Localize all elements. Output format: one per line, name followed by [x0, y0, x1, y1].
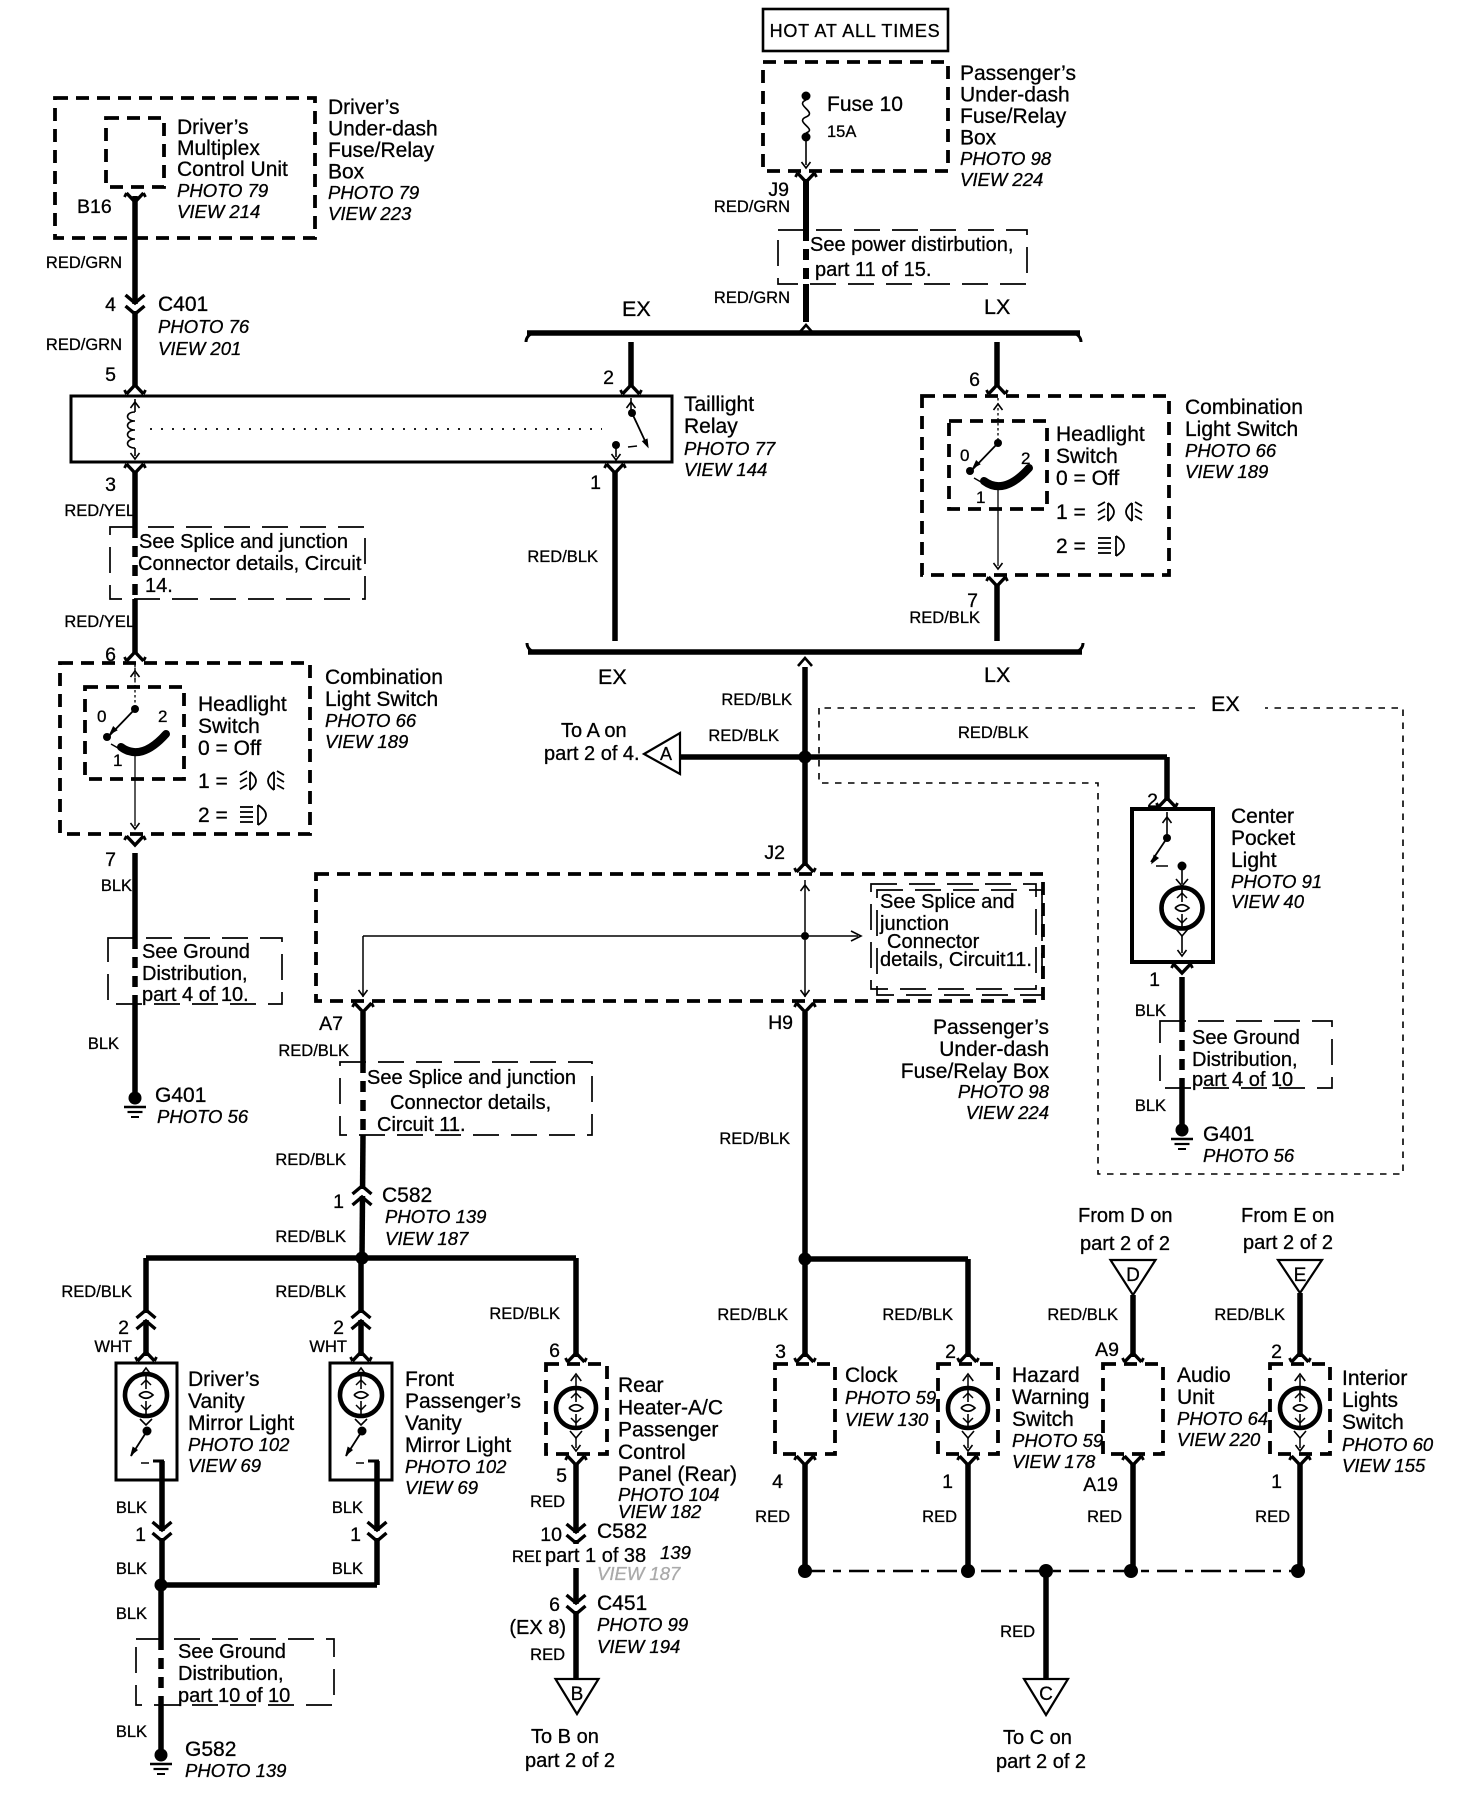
svg-text:Connector details, Circuit: Connector details, Circuit [138, 553, 362, 575]
svg-text:VIEW 178: VIEW 178 [1012, 1451, 1096, 1472]
svg-text:RED/BLK: RED/BLK [278, 1042, 349, 1060]
svg-text:Fuse/Relay: Fuse/Relay [960, 105, 1067, 128]
svg-text:1: 1 [590, 472, 601, 494]
svg-text:VIEW 223: VIEW 223 [328, 203, 412, 224]
svg-text:1: 1 [135, 1524, 146, 1546]
svg-text:RED/BLK: RED/BLK [1214, 1306, 1285, 1324]
svg-text:RED: RED [1087, 1508, 1122, 1526]
svg-text:Mirror Light: Mirror Light [188, 1412, 294, 1435]
svg-text:C582: C582 [597, 1520, 647, 1543]
svg-text:WHT: WHT [94, 1338, 132, 1356]
svg-text:RED/BLK: RED/BLK [489, 1305, 560, 1323]
svg-text:Lights: Lights [1342, 1389, 1398, 1412]
svg-text:RED: RED [530, 1646, 565, 1664]
svg-text:Switch: Switch [1342, 1411, 1404, 1434]
svg-text:Rear: Rear [618, 1374, 664, 1397]
svg-text:VIEW 187: VIEW 187 [385, 1228, 469, 1249]
svg-text:BLK: BLK [332, 1499, 363, 1517]
svg-text:Heater-A/C: Heater-A/C [618, 1396, 723, 1419]
svg-text:Under-dash: Under-dash [328, 118, 438, 141]
svg-text:PHOTO 60: PHOTO 60 [1342, 1434, 1434, 1455]
svg-text:VIEW 189: VIEW 189 [325, 731, 408, 752]
svg-text:Panel (Rear): Panel (Rear) [618, 1463, 737, 1486]
svg-text:(EX 8): (EX 8) [509, 1617, 566, 1639]
svg-text:Light: Light [1231, 849, 1277, 872]
svg-text:BLK: BLK [332, 1560, 363, 1578]
svg-text:RED/GRN: RED/GRN [46, 254, 122, 272]
svg-text:RED: RED [530, 1493, 565, 1511]
svg-text:G401: G401 [155, 1084, 206, 1107]
svg-text:2 =: 2 = [198, 804, 228, 827]
svg-text:See Splice and junction: See Splice and junction [367, 1067, 576, 1089]
svg-text:RED/GRN: RED/GRN [714, 198, 790, 216]
svg-text:15A: 15A [827, 123, 856, 141]
svg-text:Audio: Audio [1177, 1364, 1231, 1387]
svg-text:To A on: To A on [561, 720, 627, 742]
svg-text:E: E [1294, 1265, 1307, 1286]
svg-text:RED/GRN: RED/GRN [714, 289, 790, 307]
svg-text:EX: EX [1211, 692, 1240, 716]
svg-text:PHOTO 91: PHOTO 91 [1231, 871, 1322, 892]
svg-text:2: 2 [1021, 449, 1030, 468]
svg-text:RED/YEL: RED/YEL [64, 502, 135, 520]
svg-text:1: 1 [333, 1191, 344, 1213]
svg-text:B16: B16 [77, 196, 112, 218]
svg-text:See power distirbution,: See power distirbution, [810, 234, 1013, 256]
svg-text:VIEW 130: VIEW 130 [845, 1409, 929, 1430]
svg-text:2: 2 [945, 1341, 956, 1363]
svg-text:VIEW 220: VIEW 220 [1177, 1429, 1261, 1450]
svg-text:VIEW 189: VIEW 189 [1185, 461, 1268, 482]
svg-text:Fuse/Relay Box: Fuse/Relay Box [901, 1060, 1050, 1083]
svg-text:PHOTO 66: PHOTO 66 [325, 710, 417, 731]
svg-text:PHOTO 77: PHOTO 77 [684, 438, 776, 459]
svg-text:part 10 of 10: part 10 of 10 [178, 1685, 290, 1707]
svg-text:Vanity: Vanity [188, 1390, 245, 1413]
svg-text:part 4 of 10: part 4 of 10 [1192, 1069, 1293, 1091]
svg-text:part 11 of 15.: part 11 of 15. [815, 259, 931, 281]
svg-text:Light Switch: Light Switch [325, 688, 438, 711]
svg-text:Relay: Relay [684, 415, 738, 438]
svg-text:2 =: 2 = [1056, 535, 1086, 558]
svg-text:Multiplex: Multiplex [177, 137, 260, 160]
svg-text:RED/BLK: RED/BLK [275, 1283, 346, 1301]
svg-text:Under-dash: Under-dash [939, 1038, 1049, 1061]
svg-text:PHOTO 59: PHOTO 59 [1012, 1430, 1103, 1451]
svg-text:5: 5 [556, 1465, 567, 1487]
svg-text:1: 1 [976, 488, 985, 507]
svg-text:PHOTO 79: PHOTO 79 [177, 180, 268, 201]
svg-text:PHOTO 98: PHOTO 98 [960, 148, 1052, 169]
svg-text:From D on: From D on [1078, 1205, 1172, 1227]
svg-text:BLK: BLK [101, 877, 132, 895]
svg-text:10: 10 [540, 1524, 562, 1546]
svg-text:6: 6 [105, 644, 116, 666]
svg-text:C401: C401 [158, 293, 208, 316]
svg-text:Distribution,: Distribution, [178, 1663, 284, 1685]
svg-text:C582: C582 [382, 1184, 432, 1207]
svg-text:4: 4 [105, 294, 116, 316]
svg-text:0 = Off: 0 = Off [198, 737, 261, 760]
svg-text:A19: A19 [1083, 1474, 1118, 1496]
svg-text:VIEW 224: VIEW 224 [966, 1102, 1049, 1123]
svg-text:See Ground: See Ground [178, 1641, 286, 1663]
svg-text:7: 7 [105, 849, 116, 871]
svg-text:LX: LX [984, 663, 1010, 687]
svg-text:Driver’s: Driver’s [328, 96, 400, 119]
svg-text:3: 3 [105, 474, 116, 496]
svg-text:PHOTO 102: PHOTO 102 [188, 1434, 290, 1455]
svg-text:Control Unit: Control Unit [177, 158, 288, 181]
svg-text:PHOTO 56: PHOTO 56 [1203, 1145, 1295, 1166]
svg-text:Passenger: Passenger [618, 1419, 718, 1442]
svg-text:VIEW 182: VIEW 182 [618, 1501, 702, 1522]
svg-text:J2: J2 [764, 842, 785, 864]
svg-text:Circuit 11.: Circuit 11. [377, 1114, 466, 1136]
svg-text:From E on: From E on [1241, 1205, 1334, 1227]
svg-text:Headlight: Headlight [198, 693, 287, 716]
svg-text:Passenger’s: Passenger’s [960, 62, 1076, 85]
svg-text:RED/BLK: RED/BLK [719, 1130, 790, 1148]
svg-text:Pocket: Pocket [1231, 827, 1295, 850]
svg-text:part 4 of 10.: part 4 of 10. [142, 984, 249, 1006]
svg-text:1 =: 1 = [198, 770, 228, 793]
svg-text:RED/BLK: RED/BLK [61, 1283, 132, 1301]
svg-text:To C on: To C on [1003, 1727, 1072, 1749]
svg-text:Clock: Clock [845, 1364, 898, 1387]
svg-text:PHOTO 56: PHOTO 56 [157, 1106, 249, 1127]
svg-text:G401: G401 [1203, 1123, 1254, 1146]
svg-text:RED/BLK: RED/BLK [275, 1151, 346, 1169]
svg-text:BLK: BLK [1135, 1002, 1166, 1020]
svg-text:RED/BLK: RED/BLK [1047, 1306, 1118, 1324]
svg-text:A: A [660, 744, 672, 764]
svg-text:Mirror Light: Mirror Light [405, 1434, 511, 1457]
svg-text:VIEW 214: VIEW 214 [177, 201, 260, 222]
svg-text:EX: EX [622, 297, 651, 321]
svg-text:part 2 of 2: part 2 of 2 [525, 1750, 615, 1772]
svg-text:4: 4 [772, 1471, 783, 1493]
svg-text:Switch: Switch [1056, 445, 1118, 468]
svg-text:2: 2 [1271, 1341, 1282, 1363]
svg-text:BLK: BLK [116, 1605, 147, 1623]
svg-text:PHOTO 59: PHOTO 59 [845, 1387, 936, 1408]
svg-text:2: 2 [333, 1317, 344, 1339]
svg-text:RED: RED [1000, 1623, 1035, 1641]
svg-text:VIEW 144: VIEW 144 [684, 459, 767, 480]
svg-text:Light Switch: Light Switch [1185, 418, 1298, 441]
svg-text:1 =: 1 = [1056, 501, 1086, 524]
svg-text:G582: G582 [185, 1738, 236, 1761]
svg-text:VIEW 194: VIEW 194 [597, 1636, 680, 1657]
svg-text:part 2 of 2: part 2 of 2 [1243, 1232, 1333, 1254]
svg-text:0: 0 [960, 446, 969, 465]
svg-text:A9: A9 [1095, 1339, 1119, 1361]
svg-text:BLK: BLK [88, 1035, 119, 1053]
svg-text:RED/BLK: RED/BLK [958, 724, 1029, 742]
svg-text:VIEW 40: VIEW 40 [1231, 891, 1305, 912]
svg-text:VIEW 69: VIEW 69 [188, 1455, 261, 1476]
svg-text:RED/BLK: RED/BLK [708, 727, 779, 745]
svg-text:RED/GRN: RED/GRN [46, 336, 122, 354]
svg-text:5: 5 [105, 364, 116, 386]
svg-text:2: 2 [1147, 790, 1158, 812]
svg-text:1: 1 [1149, 969, 1160, 991]
svg-text:Unit: Unit [1177, 1386, 1215, 1409]
svg-text:Center: Center [1231, 805, 1294, 828]
svg-text:VIEW 201: VIEW 201 [158, 338, 241, 359]
svg-text:Box: Box [960, 127, 997, 150]
svg-text:part 2 of 2: part 2 of 2 [996, 1751, 1086, 1773]
svg-text:Interior: Interior [1342, 1367, 1407, 1390]
svg-text:7: 7 [967, 590, 978, 612]
svg-text:Passenger’s: Passenger’s [933, 1016, 1049, 1039]
svg-text:part 2 of 2: part 2 of 2 [1080, 1233, 1170, 1255]
svg-text:HOT AT ALL TIMES: HOT AT ALL TIMES [770, 21, 941, 41]
svg-text:See Ground: See Ground [1192, 1027, 1300, 1049]
svg-text:part 2 of 4.: part 2 of 4. [544, 743, 640, 765]
svg-text:RED/BLK: RED/BLK [527, 548, 598, 566]
svg-text:BLK: BLK [116, 1560, 147, 1578]
svg-text:B: B [571, 1684, 584, 1705]
svg-text:Warning: Warning [1012, 1386, 1089, 1409]
svg-text:LX: LX [984, 295, 1010, 319]
svg-text:PHOTO 139: PHOTO 139 [385, 1206, 486, 1227]
svg-text:A7: A7 [319, 1013, 343, 1035]
svg-text:Driver’s: Driver’s [188, 1368, 260, 1391]
svg-text:Front: Front [405, 1368, 454, 1391]
svg-text:2: 2 [158, 707, 167, 726]
svg-text:See Splice and: See Splice and [880, 891, 1015, 913]
svg-text:0: 0 [97, 707, 106, 726]
svg-text:BLK: BLK [116, 1499, 147, 1517]
svg-text:details, Circuit11.: details, Circuit11. [880, 949, 1032, 971]
svg-text:PHOTO 98: PHOTO 98 [958, 1081, 1050, 1102]
svg-text:PHOTO 79: PHOTO 79 [328, 182, 419, 203]
svg-text:6: 6 [549, 1340, 560, 1362]
svg-text:1: 1 [1271, 1471, 1282, 1493]
svg-text:RED: RED [1255, 1508, 1290, 1526]
svg-text:1: 1 [350, 1524, 361, 1546]
svg-text:Box: Box [328, 161, 365, 184]
svg-text:D: D [1126, 1265, 1140, 1286]
svg-text:1: 1 [942, 1471, 953, 1493]
svg-text:14.: 14. [145, 575, 173, 597]
svg-text:RED/BLK: RED/BLK [717, 1306, 788, 1324]
svg-text:BLK: BLK [1135, 1097, 1166, 1115]
svg-text:Distribution,: Distribution, [142, 963, 248, 985]
svg-text:VIEW 187: VIEW 187 [597, 1563, 681, 1584]
svg-text:RED: RED [922, 1508, 957, 1526]
svg-text:RED: RED [755, 1508, 790, 1526]
svg-text:Control: Control [618, 1441, 686, 1464]
svg-text:6: 6 [969, 369, 980, 391]
svg-text:PHOTO 102: PHOTO 102 [405, 1456, 507, 1477]
svg-text:See Ground: See Ground [142, 941, 250, 963]
svg-text:Hazard: Hazard [1012, 1364, 1080, 1387]
svg-text:EX: EX [598, 665, 627, 689]
svg-text:VIEW 69: VIEW 69 [405, 1477, 478, 1498]
svg-text:RED/BLK: RED/BLK [721, 691, 792, 709]
svg-text:Passenger’s: Passenger’s [405, 1390, 521, 1413]
svg-text:PHOTO 76: PHOTO 76 [158, 316, 250, 337]
svg-text:To B on: To B on [531, 1726, 599, 1748]
svg-text:Combination: Combination [325, 666, 443, 689]
svg-text:See Splice and junction: See Splice and junction [139, 531, 348, 553]
svg-text:Driver’s: Driver’s [177, 116, 249, 139]
svg-text:Headlight: Headlight [1056, 423, 1145, 446]
svg-text:Taillight: Taillight [684, 393, 754, 416]
svg-text:PHOTO 139: PHOTO 139 [185, 1760, 286, 1781]
svg-text:RED/BLK: RED/BLK [882, 1306, 953, 1324]
svg-text:Connector details,: Connector details, [390, 1092, 551, 1114]
svg-text:RED/BLK: RED/BLK [275, 1228, 346, 1246]
svg-text:Vanity: Vanity [405, 1412, 462, 1435]
svg-text:PHOTO 64: PHOTO 64 [1177, 1408, 1268, 1429]
svg-text:Switch: Switch [1012, 1408, 1074, 1431]
svg-text:VIEW 224: VIEW 224 [960, 169, 1043, 190]
svg-text:VIEW 155: VIEW 155 [1342, 1455, 1426, 1476]
svg-text:C: C [1039, 1684, 1053, 1705]
svg-text:3: 3 [775, 1341, 786, 1363]
svg-text:H9: H9 [768, 1012, 793, 1034]
svg-text:Fuse/Relay: Fuse/Relay [328, 139, 435, 162]
svg-text:PHOTO 66: PHOTO 66 [1185, 440, 1277, 461]
svg-text:Switch: Switch [198, 715, 260, 738]
svg-text:139: 139 [660, 1542, 691, 1563]
svg-text:Fuse 10: Fuse 10 [827, 93, 903, 116]
svg-text:C451: C451 [597, 1592, 647, 1615]
svg-text:2: 2 [603, 367, 614, 389]
svg-text:BLK: BLK [116, 1723, 147, 1741]
svg-text:0 = Off: 0 = Off [1056, 467, 1119, 490]
svg-text:6: 6 [549, 1594, 560, 1616]
svg-text:2: 2 [118, 1317, 129, 1339]
svg-text:Combination: Combination [1185, 396, 1303, 419]
svg-text:PHOTO 99: PHOTO 99 [597, 1614, 688, 1635]
svg-text:Distribution,: Distribution, [1192, 1049, 1298, 1071]
svg-text:1: 1 [113, 751, 122, 770]
svg-text:WHT: WHT [309, 1338, 347, 1356]
svg-text:RED/YEL: RED/YEL [64, 613, 135, 631]
svg-text:Under-dash: Under-dash [960, 84, 1070, 107]
